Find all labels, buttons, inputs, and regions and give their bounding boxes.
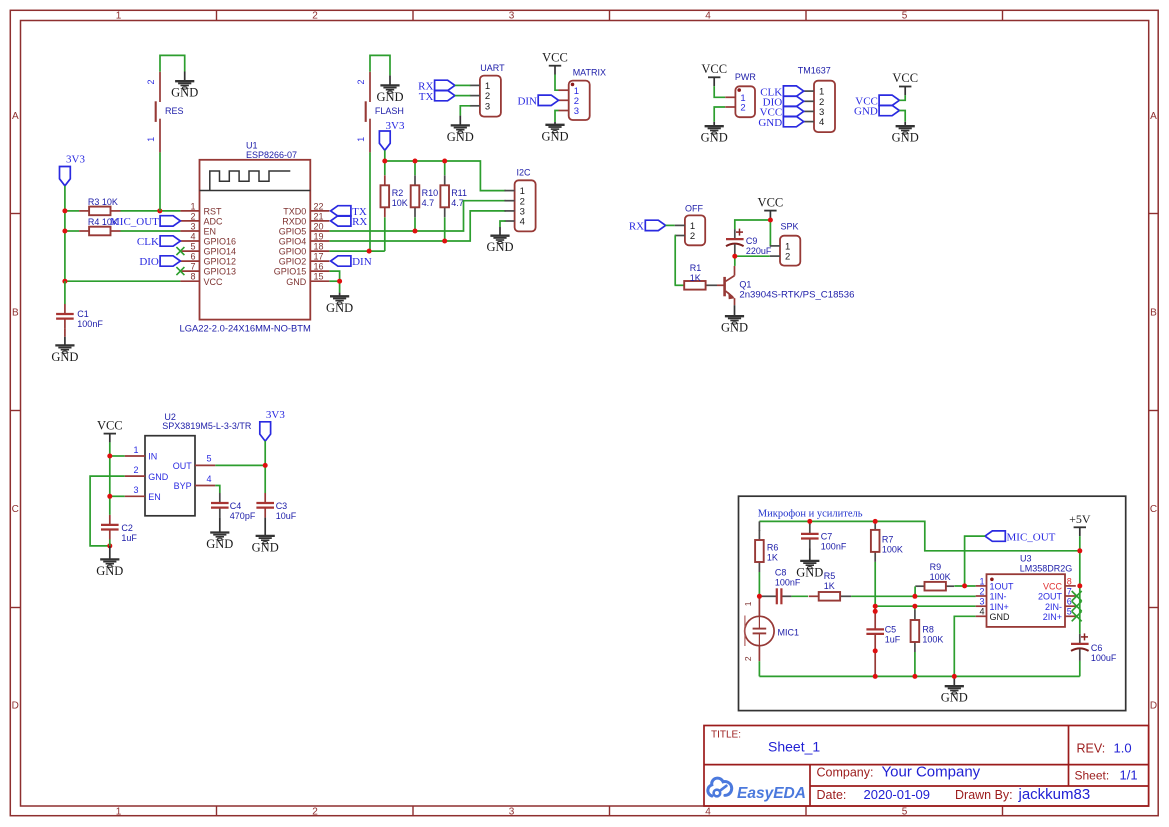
wire mic bottom rail [759, 675, 1079, 677]
net flag RX at U1 [331, 216, 368, 228]
wire 1IN+ row [875, 605, 976, 607]
svg-text:3: 3 [979, 597, 984, 607]
net flag MIC_OUT at amp [985, 531, 1056, 543]
svg-text:C: C [12, 504, 19, 515]
svg-text:16: 16 [314, 262, 324, 272]
wire R9 feedback [915, 586, 976, 596]
svg-text:4: 4 [705, 11, 711, 22]
svg-text:MIC_OUT: MIC_OUT [110, 216, 159, 228]
ground under U1 [326, 293, 353, 315]
svg-text:SPX3819M5-L-3-3/TR: SPX3819M5-L-3-3/TR [162, 421, 252, 431]
net flag TX at U1 [331, 206, 367, 218]
wire MIC_OUT drop [965, 536, 985, 586]
label C6 [1091, 643, 1117, 663]
connector TM1637 [804, 81, 835, 132]
svg-text:C2: C2 [121, 523, 133, 533]
svg-text:I2C: I2C [517, 167, 532, 177]
svg-text:UART: UART [480, 63, 505, 73]
svg-text:22: 22 [314, 201, 324, 211]
power flag 3V3 at U2 [260, 409, 286, 441]
net flag DIO at TM1637 [763, 96, 804, 108]
svg-text:Company:: Company: [817, 766, 874, 780]
wire R8 bottom [914, 652, 916, 676]
svg-text:5: 5 [902, 11, 908, 22]
svg-text:MATRIX: MATRIX [573, 68, 606, 78]
wire C9 bottom node [735, 256, 770, 266]
svg-text:GND: GND [758, 117, 782, 129]
svg-text:7: 7 [190, 262, 195, 272]
svg-text:R8: R8 [922, 625, 934, 635]
wire VCC flag link [899, 95, 905, 100]
label R1 [690, 263, 702, 283]
label R8 [922, 625, 943, 645]
junction dot pin15 [337, 279, 342, 284]
wire GPIO5 row to I2C pin2 [329, 201, 505, 231]
svg-text:3: 3 [509, 11, 515, 22]
svg-text:GND: GND [51, 350, 78, 364]
svg-text:VCC: VCC [542, 50, 568, 64]
svg-text:4: 4 [190, 231, 195, 241]
wire GPIO0 row [329, 250, 384, 252]
svg-text:MIC_OUT: MIC_OUT [1007, 531, 1056, 543]
svg-text:OUT: OUT [173, 461, 193, 471]
svg-text:GND: GND [96, 564, 123, 578]
svg-text:3V3: 3V3 [386, 120, 405, 132]
ground above RES [171, 72, 198, 100]
wire RST row left [65, 210, 180, 212]
net flag TX at UART [419, 90, 455, 102]
label C1 [77, 309, 103, 329]
wire I2C pin4 to gnd [500, 221, 506, 227]
ground above FLASH [376, 75, 403, 104]
svg-text:Q1: Q1 [739, 280, 751, 290]
svg-text:VCC: VCC [701, 62, 727, 76]
label R10 [422, 188, 439, 208]
net flag GND at TM1637 [758, 116, 803, 128]
svg-text:LM358DR2G: LM358DR2G [1020, 564, 1073, 574]
wire FLASH to GPIO0 [369, 152, 371, 251]
svg-text:15: 15 [314, 272, 324, 282]
junction dot OUT [263, 463, 268, 468]
junction dots amp [757, 583, 1082, 679]
svg-text:D: D [12, 701, 19, 712]
svg-text:RX: RX [629, 221, 644, 233]
svg-text:8: 8 [1067, 576, 1072, 586]
svg-text:1: 1 [743, 601, 753, 606]
svg-text:C3: C3 [276, 501, 288, 511]
svg-text:R7: R7 [882, 535, 894, 545]
wire R8 top [914, 606, 916, 610]
pushbutton RES [146, 72, 184, 153]
svg-text:GPIO16: GPIO16 [204, 237, 237, 247]
svg-text:GND: GND [941, 691, 968, 705]
svg-text:C6: C6 [1091, 643, 1103, 653]
svg-text:C7: C7 [821, 531, 833, 541]
svg-text:B: B [1150, 308, 1157, 319]
svg-text:ESP8266-07: ESP8266-07 [246, 150, 297, 160]
svg-text:3: 3 [190, 221, 195, 231]
svg-text:100nF: 100nF [77, 319, 103, 329]
svg-text:1uF: 1uF [885, 634, 901, 644]
ground under C2 [96, 559, 123, 578]
svg-text:GND: GND [447, 130, 474, 144]
svg-text:GPIO13: GPIO13 [204, 267, 237, 277]
svg-text:GPIO2: GPIO2 [279, 257, 307, 267]
svg-text:TM1637: TM1637 [798, 65, 831, 75]
svg-text:TXD0: TXD0 [283, 207, 306, 217]
wire R2 to GPIO0 row [384, 217, 386, 251]
svg-text:TX: TX [419, 91, 434, 103]
svg-text:GND: GND [252, 540, 279, 554]
ground under UART [447, 116, 474, 144]
svg-text:GND: GND [854, 106, 878, 118]
wire GPIO15 GND rows [329, 271, 339, 293]
svg-text:18: 18 [314, 242, 324, 252]
svg-text:3V3: 3V3 [266, 409, 285, 421]
net flag DIN at MATRIX [517, 95, 558, 107]
svg-text:Микрофон и усилитель: Микрофон и усилитель [758, 509, 863, 520]
net flag DIN at U1 [331, 256, 372, 268]
svg-text:GND: GND [171, 86, 198, 100]
no-connect cross pin5 [176, 247, 184, 255]
svg-text:2: 2 [190, 211, 195, 221]
label C8 [775, 567, 801, 587]
IC U1 ESP8266-07 [180, 140, 330, 333]
wire UART pins [455, 85, 470, 115]
IC U3 LM358DR2G [976, 554, 1076, 627]
svg-text:5: 5 [1067, 607, 1072, 617]
svg-text:2IN+: 2IN+ [1043, 612, 1062, 622]
svg-text:Sheet_1: Sheet_1 [768, 739, 820, 755]
connector UART [470, 76, 501, 117]
svg-text:GND: GND [541, 129, 568, 143]
ground right pair [892, 122, 919, 145]
resistor R5 [809, 592, 851, 601]
capacitor C3 [256, 493, 274, 536]
resistor R9 [915, 582, 954, 591]
resistor R2 [381, 175, 390, 217]
power VCC above U2 [97, 418, 123, 442]
svg-text:CLK: CLK [137, 236, 159, 248]
svg-text:21: 21 [314, 211, 324, 221]
wire 3V3 pullup rail [385, 150, 506, 190]
svg-text:2: 2 [785, 252, 790, 263]
svg-text:C8: C8 [775, 567, 787, 577]
junction dots Q1 area [732, 218, 773, 259]
svg-text:MIC1: MIC1 [778, 627, 800, 637]
svg-text:GND: GND [286, 277, 307, 287]
label R2 [392, 188, 408, 208]
svg-text:jackkum83: jackkum83 [1018, 786, 1091, 803]
svg-text:1: 1 [356, 137, 366, 142]
wire GND flag link [899, 111, 905, 122]
svg-text:10K: 10K [392, 198, 408, 208]
svg-text:GND: GND [148, 472, 169, 482]
net flag VCC pair [855, 95, 899, 107]
wire VCC to PWR pin1 [714, 86, 725, 97]
power VCC above MATRIX [542, 50, 568, 74]
svg-text:19: 19 [314, 231, 324, 241]
svg-text:GPIO4: GPIO4 [279, 237, 307, 247]
EasyEDA logo [708, 778, 806, 802]
resistor R10 [411, 175, 420, 217]
resistor R11 [440, 175, 449, 217]
no-connect cross pin7 [176, 267, 184, 275]
svg-text:4: 4 [206, 474, 211, 484]
svg-text:100K: 100K [882, 545, 903, 555]
svg-text:GPIO0: GPIO0 [279, 247, 307, 257]
ground under Q1 [721, 305, 748, 335]
power +5V [1069, 512, 1091, 536]
svg-text:Drawn By:: Drawn By: [955, 788, 1013, 802]
ground under C4 [206, 533, 233, 552]
capacitor C6 [1071, 633, 1089, 676]
wire +5V column [1079, 536, 1081, 634]
svg-text:2n3904S-RTK/PS_C18536: 2n3904S-RTK/PS_C18536 [739, 290, 854, 301]
svg-text:1: 1 [979, 576, 984, 586]
svg-text:U3: U3 [1020, 554, 1032, 564]
ground under PWR [701, 122, 728, 145]
wire mic bottom [758, 661, 760, 676]
net flag CLK at U1 [137, 236, 181, 248]
svg-text:C4: C4 [230, 501, 242, 511]
svg-text:ADC: ADC [204, 217, 224, 227]
svg-text:GPIO5: GPIO5 [279, 227, 307, 237]
wire MATRIX pin3 to gnd [555, 111, 559, 123]
label C5 [885, 624, 901, 644]
connector OFF [675, 215, 706, 245]
svg-text:3: 3 [133, 485, 138, 495]
capacitor C4 [211, 493, 229, 533]
net flag RX at OFF [629, 220, 666, 232]
resistor R7 [871, 520, 880, 562]
wire U2 input rail [110, 442, 125, 515]
svg-text:REV:: REV: [1077, 742, 1106, 756]
svg-text:GND: GND [376, 90, 403, 104]
svg-text:1IN+: 1IN+ [990, 602, 1009, 612]
wire OFF pin2 to R1 [674, 236, 677, 286]
net flag DIO at U1 [139, 256, 180, 268]
svg-text:1/1: 1/1 [1120, 768, 1138, 783]
svg-text:2: 2 [146, 79, 156, 84]
svg-text:VCC: VCC [204, 277, 224, 287]
svg-text:2: 2 [979, 586, 984, 596]
svg-text:EN: EN [204, 227, 217, 237]
svg-text:TITLE:: TITLE: [711, 730, 741, 741]
resistor R1 [675, 281, 718, 290]
svg-text:8: 8 [190, 272, 195, 282]
power VCC above Q1 [758, 195, 784, 219]
svg-text:2: 2 [356, 79, 366, 84]
svg-text:VCC: VCC [1043, 582, 1063, 592]
ground under MATRIX [541, 122, 568, 143]
connector PWR [725, 86, 755, 117]
power flag 3V3 left [60, 154, 86, 186]
svg-text:R3 10K: R3 10K [88, 197, 118, 207]
wire EN row left [65, 230, 180, 232]
junction dots U2 rail [107, 454, 112, 549]
pushbutton FLASH [356, 72, 404, 153]
capacitor C8 [762, 588, 792, 604]
no-connect crosses U3 [1072, 591, 1082, 621]
wire PWR pin2 to gnd [714, 107, 725, 122]
svg-text:20: 20 [314, 221, 324, 231]
svg-text:2: 2 [133, 465, 138, 475]
svg-text:A: A [12, 111, 19, 122]
svg-text:U1: U1 [246, 140, 258, 150]
label R5 [824, 571, 836, 591]
svg-text:C1: C1 [77, 309, 89, 319]
ground under C7 [796, 561, 823, 580]
mic amp enclosure box [739, 496, 1126, 710]
svg-text:1: 1 [146, 137, 156, 142]
net flag CLK at TM1637 [760, 86, 804, 98]
svg-text:C: C [1150, 504, 1157, 515]
net flag GND pair [854, 105, 899, 117]
svg-text:10uF: 10uF [276, 511, 297, 521]
svg-text:RX: RX [352, 216, 367, 228]
wire VCC to MATRIX pin1 [555, 75, 559, 91]
svg-text:GND: GND [326, 301, 353, 315]
wire U2 gnd loop [90, 476, 125, 546]
svg-text:3: 3 [574, 106, 579, 117]
svg-text:Sheet:: Sheet: [1075, 769, 1110, 783]
wire 1IN- row [851, 595, 976, 597]
svg-text:PWR: PWR [735, 72, 756, 82]
wire 3V3 rail left [64, 186, 66, 281]
svg-text:R10: R10 [422, 188, 439, 198]
svg-text:4.7: 4.7 [451, 198, 464, 208]
junction dots pullup rail [367, 159, 448, 254]
svg-text:2020-01-09: 2020-01-09 [864, 787, 931, 802]
label R9 [930, 562, 951, 582]
svg-text:1.0: 1.0 [1114, 741, 1132, 756]
label C4 [230, 501, 256, 521]
svg-text:2: 2 [740, 103, 745, 114]
capacitor C1 [56, 281, 74, 345]
label C9 [746, 236, 772, 256]
wire R6 bottom [758, 572, 760, 596]
svg-text:DIO: DIO [139, 256, 159, 268]
resistor R8 [911, 610, 920, 652]
svg-text:1OUT: 1OUT [990, 582, 1015, 592]
svg-text:GND: GND [486, 240, 513, 254]
ground mic box [941, 678, 968, 705]
ground under C1 [51, 345, 78, 364]
transistor Q1 2n3904 [717, 266, 735, 305]
power VCC right [892, 71, 918, 95]
svg-text:4: 4 [819, 117, 824, 128]
junction dots mic rail [807, 519, 1082, 553]
connector MATRIX [559, 81, 590, 120]
svg-text:1K: 1K [824, 581, 835, 591]
svg-text:+5V: +5V [1069, 512, 1091, 526]
svg-text:2: 2 [690, 231, 695, 242]
svg-text:3V3: 3V3 [66, 154, 85, 166]
svg-text:4: 4 [705, 806, 711, 817]
IC U2 SPX3819M5 [125, 412, 252, 516]
svg-text:1: 1 [116, 11, 122, 22]
wire mic top rail [759, 521, 1079, 550]
svg-text:7: 7 [1067, 586, 1072, 596]
svg-text:RES: RES [165, 106, 184, 116]
capacitor C9 [726, 229, 744, 257]
title block [704, 726, 1149, 807]
svg-text:6: 6 [190, 252, 195, 262]
svg-text:Your Company: Your Company [882, 764, 981, 781]
label R6 [767, 543, 779, 563]
svg-text:VCC: VCC [758, 195, 784, 209]
svg-text:1: 1 [133, 445, 138, 455]
connector SPK [770, 236, 801, 266]
wire FLASH to gnd [370, 55, 390, 75]
svg-text:GPIO15: GPIO15 [274, 267, 307, 277]
svg-text:2IN-: 2IN- [1045, 602, 1062, 612]
svg-text:B: B [12, 308, 19, 319]
capacitor C7 [801, 521, 819, 561]
net flag RX at UART [418, 80, 455, 92]
power flag 3V3 mid [379, 120, 405, 150]
svg-text:5: 5 [902, 806, 908, 817]
svg-text:100K: 100K [930, 572, 951, 582]
ground under I2C [486, 227, 513, 254]
svg-text:3: 3 [485, 101, 490, 112]
svg-text:R9: R9 [930, 562, 942, 572]
label R11 [451, 188, 467, 208]
junction dots 3V3 rail [62, 208, 162, 283]
svg-text:2OUT: 2OUT [1038, 592, 1063, 602]
ground under C3 [252, 536, 279, 555]
svg-text:C5: C5 [885, 624, 897, 634]
svg-text:FLASH: FLASH [375, 106, 404, 116]
svg-text:100K: 100K [922, 635, 943, 645]
microphone MIC1 [743, 596, 774, 661]
wire U2 OUT [215, 441, 265, 493]
svg-text:GND: GND [892, 131, 919, 145]
wire RX to OFF [666, 224, 675, 226]
svg-text:4: 4 [979, 607, 984, 617]
svg-text:R5: R5 [824, 571, 836, 581]
svg-text:1K: 1K [767, 553, 778, 563]
label C3 [276, 501, 297, 521]
svg-text:470pF: 470pF [230, 511, 256, 521]
svg-text:VCC: VCC [892, 71, 918, 85]
svg-text:GPIO14: GPIO14 [204, 247, 237, 257]
wire R7 bottom [874, 562, 876, 611]
svg-text:GND: GND [990, 612, 1011, 622]
wire C8 to R5 [791, 595, 808, 597]
svg-text:R1: R1 [690, 263, 702, 273]
wire U3 gnd pin [954, 616, 975, 676]
power VCC above PWR [701, 62, 727, 86]
wire VCC row pin8 [65, 280, 180, 282]
svg-text:Date:: Date: [817, 788, 847, 802]
svg-text:4.7: 4.7 [422, 198, 435, 208]
svg-text:17: 17 [314, 252, 324, 262]
svg-text:100nF: 100nF [775, 577, 801, 587]
capacitor C2 [101, 515, 119, 560]
svg-text:220uF: 220uF [746, 246, 772, 256]
svg-text:2: 2 [743, 656, 753, 661]
svg-text:RXD0: RXD0 [282, 217, 306, 227]
svg-text:2: 2 [312, 11, 318, 22]
wire GPIO4 row to I2C pin3 [329, 211, 505, 241]
svg-text:VCC: VCC [97, 418, 123, 432]
svg-text:3: 3 [509, 806, 515, 817]
label C2 [121, 523, 137, 543]
svg-text:1uF: 1uF [121, 533, 137, 543]
svg-text:100nF: 100nF [821, 541, 847, 551]
